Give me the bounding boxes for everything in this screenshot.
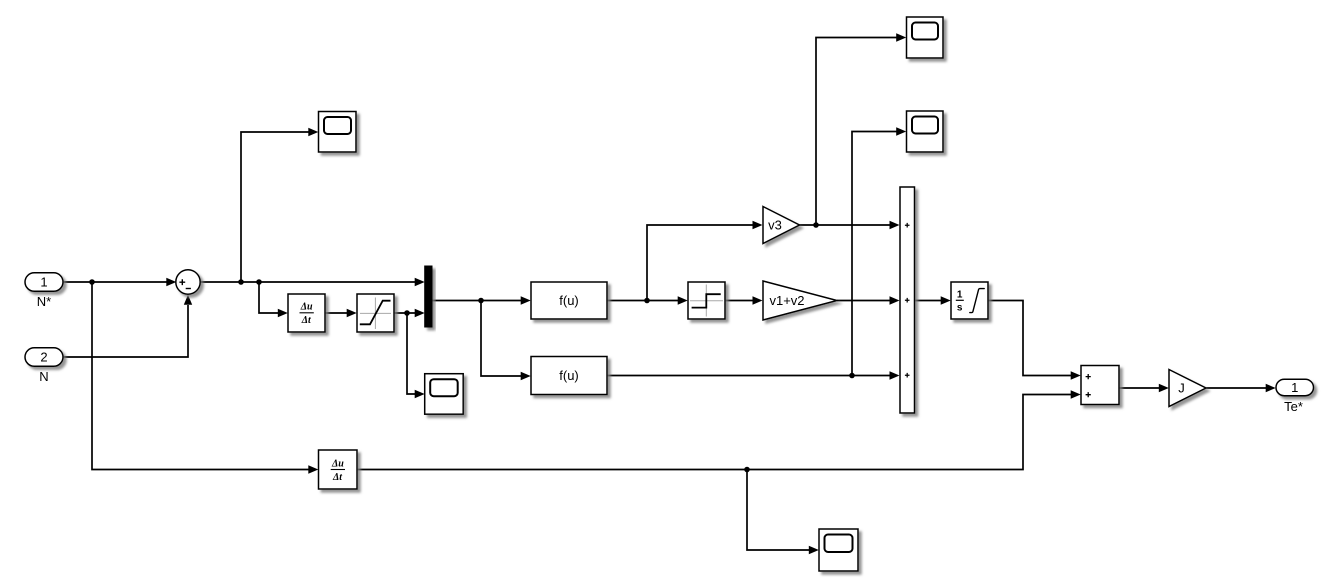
wire integrator to sum2 input1 bbox=[988, 301, 1080, 380]
wire gain v3 to sum bar input1 bbox=[800, 221, 900, 229]
svg-text:N*: N* bbox=[37, 294, 51, 309]
sum block (circle +-) bbox=[176, 270, 200, 294]
svg-text:1: 1 bbox=[957, 290, 963, 301]
Fcn block 2 f(u) bbox=[531, 357, 607, 395]
gain J bbox=[1169, 370, 1206, 407]
integrator block 1/s bbox=[951, 282, 988, 319]
gain v1+v2 bbox=[763, 281, 837, 320]
svg-text:Δt: Δt bbox=[332, 472, 343, 483]
wire branch up to scope C bbox=[816, 33, 906, 225]
svg-text:1: 1 bbox=[40, 275, 47, 290]
mux (black bar) bbox=[425, 266, 432, 327]
inport 2 (N) bbox=[25, 348, 63, 384]
derivative block 2 (du/dt) bbox=[319, 450, 358, 489]
wire sum2 to gain J bbox=[1119, 384, 1169, 392]
junction node after saturation bbox=[404, 310, 410, 316]
svg-text:Δu: Δu bbox=[300, 302, 313, 313]
wire branch up to scope A bbox=[241, 128, 318, 282]
wire sum to mux input1 bbox=[200, 278, 425, 286]
svg-text:N: N bbox=[39, 369, 48, 384]
wire sum bar to integrator bbox=[915, 296, 950, 304]
wire mux to Fcn1 bbox=[432, 296, 530, 304]
derivative block 1 (du/dt) bbox=[288, 294, 325, 332]
wire relay to gain v1+v2 bbox=[725, 296, 762, 304]
scope D (top right lower) bbox=[907, 111, 944, 152]
svg-text:s: s bbox=[957, 303, 963, 314]
wire branch up to scope D bbox=[852, 127, 906, 375]
svg-text:v3: v3 bbox=[768, 218, 782, 233]
wire branch down to derivative1 bbox=[259, 282, 288, 317]
svg-text:f(u): f(u) bbox=[559, 368, 579, 383]
saturation block bbox=[357, 294, 394, 332]
junction node after sum bbox=[238, 279, 244, 285]
wire branch down to scope B bbox=[407, 313, 425, 398]
junction node after Fcn1 bbox=[644, 298, 650, 304]
wire N* branch down to derivative2 bbox=[92, 282, 318, 474]
junction node after Fcn2 bbox=[849, 373, 855, 379]
svg-text:J: J bbox=[1178, 381, 1185, 396]
wire gain v1+v2 to sum bar input2 bbox=[837, 296, 900, 304]
sum2 block (square ++) bbox=[1081, 366, 1119, 405]
wire branch down to scope E bbox=[747, 470, 819, 555]
gain v3 bbox=[763, 207, 800, 244]
outport 1 (Te*) bbox=[1276, 379, 1314, 414]
relay block bbox=[688, 282, 725, 319]
svg-text:Δu: Δu bbox=[331, 458, 344, 469]
svg-text:f(u): f(u) bbox=[559, 293, 579, 308]
junction node after v3 bbox=[813, 222, 819, 228]
wire derivative1 to saturation bbox=[325, 309, 356, 317]
svg-text:1: 1 bbox=[1291, 380, 1298, 395]
wire Fcn1 to relay bbox=[607, 296, 687, 304]
scope C (top right upper) bbox=[907, 17, 944, 58]
junction node to derivative1 bbox=[256, 279, 262, 285]
scope E (bottom) bbox=[819, 529, 858, 571]
wire inport2 to sum bottom bbox=[63, 295, 192, 357]
junction node on N* line bbox=[89, 279, 95, 285]
junction node after mux bbox=[478, 298, 484, 304]
Fcn block 1 f(u) bbox=[531, 282, 607, 319]
scope A (top left) bbox=[319, 112, 357, 153]
wire inport1 to sum bbox=[63, 278, 176, 286]
wire saturation to mux input2 bbox=[394, 309, 424, 317]
scope B (below mux) bbox=[425, 374, 464, 415]
wire gain J to outport bbox=[1206, 384, 1275, 392]
svg-text:v1+v2: v1+v2 bbox=[769, 293, 804, 308]
wire derivative2 to sum2 input2 bbox=[357, 390, 1081, 469]
wire branch up to gain v3 bbox=[647, 221, 763, 301]
svg-text:Te*: Te* bbox=[1284, 399, 1303, 414]
wire branch down to Fcn2 bbox=[481, 301, 531, 381]
svg-text:2: 2 bbox=[40, 350, 47, 365]
sum bar block (3 inputs) bbox=[900, 187, 915, 413]
wire Fcn2 to sum bar input3 bbox=[607, 371, 899, 379]
svg-text:Δt: Δt bbox=[301, 315, 312, 326]
inport 1 (N*) bbox=[25, 273, 63, 309]
junction node on derivative2 line bbox=[744, 467, 750, 473]
